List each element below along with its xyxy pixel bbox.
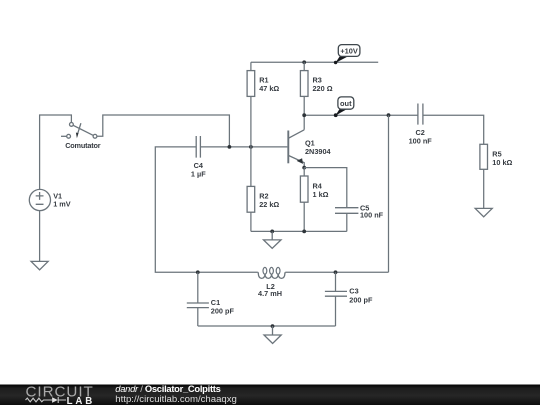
capacitor C3 bbox=[325, 272, 347, 326]
node R3 top bbox=[302, 60, 306, 64]
top +10V rail bbox=[251, 61, 378, 63]
capacitor C2 bbox=[418, 104, 423, 125]
inductor L2 bbox=[257, 267, 286, 278]
CircuitLab logo resistor-diode glyph bbox=[26, 397, 67, 403]
svg-text:1 µF: 1 µF bbox=[191, 169, 206, 178]
svg-text:220 Ω: 220 Ω bbox=[313, 84, 333, 93]
capacitor C5 bbox=[335, 208, 358, 232]
node at R1/R2/base junction bbox=[249, 145, 253, 149]
svg-text:47 kΩ: 47 kΩ bbox=[259, 84, 279, 93]
svg-text:100 nF: 100 nF bbox=[409, 137, 433, 146]
ground for V1 bbox=[31, 261, 48, 269]
svg-text:Comutator: Comutator bbox=[65, 141, 101, 150]
node tank ground bbox=[271, 324, 275, 328]
svg-text:http://circuitlab.com/chaaqxg: http://circuitlab.com/chaaqxg bbox=[115, 394, 237, 405]
svg-text:10 kΩ: 10 kΩ bbox=[492, 158, 512, 167]
ground mid bbox=[264, 231, 282, 248]
wire C4 right plate to Q1 base bbox=[200, 146, 287, 148]
capacitor C4 bbox=[196, 136, 200, 158]
wire C2 to R5 bbox=[423, 115, 484, 144]
voltage source V1 bbox=[29, 189, 50, 210]
node R4 bottom bbox=[302, 230, 306, 234]
svg-text:200 pF: 200 pF bbox=[349, 295, 373, 304]
ground for R5 bbox=[475, 208, 492, 216]
resistor R5 bbox=[480, 144, 488, 208]
switch SW1 Comutator bbox=[61, 123, 97, 139]
wire switch right contact up and over to C4 junction bbox=[97, 115, 230, 147]
resistor R1 bbox=[247, 62, 255, 186]
ground tank bbox=[264, 326, 281, 344]
svg-text:LAB: LAB bbox=[67, 396, 96, 405]
resistor R4 bbox=[300, 168, 308, 232]
resistor R3 bbox=[300, 62, 308, 130]
svg-text:2N3904: 2N3904 bbox=[305, 147, 332, 156]
svg-text:200 pF: 200 pF bbox=[211, 307, 235, 316]
node ground mid bbox=[270, 230, 274, 234]
svg-text:100 nF: 100 nF bbox=[360, 211, 384, 220]
tank bottom rail right of coil bbox=[286, 271, 389, 273]
tank right vertical from out node down bbox=[388, 115, 390, 272]
out wire from collector node to C2 bbox=[304, 114, 418, 116]
svg-text:22 kΩ: 22 kΩ bbox=[259, 200, 279, 209]
node tank feedback attach bbox=[387, 113, 391, 117]
resistor R2 bbox=[247, 186, 255, 231]
svg-text:1 mV: 1 mV bbox=[53, 200, 71, 209]
+10V flag bbox=[334, 45, 360, 65]
node C3 top bbox=[334, 270, 338, 274]
svg-text:dandr / Oscilator_Colpitts: dandr / Oscilator_Colpitts bbox=[115, 383, 220, 394]
tank ground rail bbox=[198, 325, 336, 327]
svg-text:4.7 mH: 4.7 mH bbox=[258, 289, 282, 298]
wire V1 top to switch pivot bbox=[40, 115, 72, 189]
svg-text:+10V: +10V bbox=[340, 46, 358, 55]
node at switch/C4 junction bbox=[228, 145, 232, 149]
emitter bottom rail bbox=[251, 230, 347, 232]
node C1 top bbox=[196, 270, 200, 274]
node collector/out bbox=[302, 113, 306, 117]
wire V1 bottom to ground bbox=[39, 211, 41, 262]
svg-text:C1: C1 bbox=[211, 298, 220, 307]
svg-text:1 kΩ: 1 kΩ bbox=[313, 190, 329, 199]
footer bar bbox=[0, 385, 540, 405]
out flag bbox=[334, 97, 354, 117]
capacitor C1 bbox=[187, 272, 209, 326]
svg-text:C3: C3 bbox=[349, 287, 358, 296]
emitter node bbox=[302, 166, 306, 170]
wire C4 left to tank left vertical and bottom rail to coil start bbox=[155, 147, 257, 272]
svg-text:out: out bbox=[340, 99, 352, 108]
node out flag attach bbox=[334, 113, 338, 117]
wire emitter to C5 top bbox=[304, 168, 347, 208]
transistor Q1 bbox=[288, 130, 304, 168]
